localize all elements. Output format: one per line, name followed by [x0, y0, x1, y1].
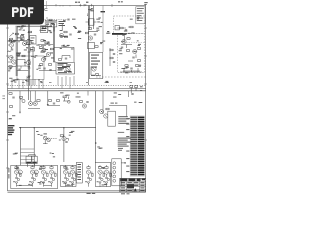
transformer T2 core — [32, 162, 37, 164]
wire — [66, 139, 68, 141]
capacitor C19 — [125, 30, 127, 31]
resistor R48 — [39, 47, 42, 49]
resistor R9 — [41, 51, 44, 53]
wire — [8, 40, 12, 49]
connector pin 4 — [113, 175, 116, 178]
transistor Q12 — [133, 49, 137, 53]
value label — [91, 61, 100, 62]
strip text marks — [77, 164, 81, 180]
resistor R43 — [41, 40, 44, 42]
parts list density overlay — [130, 115, 145, 176]
wire stubs to Q13 Q14 — [31, 91, 36, 102]
resistor R23 — [127, 38, 130, 40]
resistor R3 — [20, 36, 23, 38]
resistor R8 — [22, 55, 25, 57]
rotated note left of output box — [8, 168, 9, 179]
transformer T2 box — [32, 156, 37, 163]
wire vertical net center — [87, 6, 89, 86]
bus tick marks — [28, 33, 31, 76]
wire — [17, 66, 29, 71]
output stage box mid — [61, 165, 77, 186]
component box U2 — [56, 63, 75, 75]
resistor R11 — [58, 59, 61, 61]
resistor R5 — [42, 27, 45, 29]
transistor Q3 — [9, 55, 13, 59]
enclosure outline left block — [17, 56, 44, 80]
resistor R34 — [48, 100, 51, 102]
title block text marks — [121, 182, 145, 191]
capacitor C1 — [11, 49, 13, 50]
wire vertical stub — [92, 6, 94, 30]
junction cross marks — [8, 15, 136, 141]
node junction — [63, 127, 64, 128]
resistor R46 — [120, 27, 123, 29]
node label small — [101, 11, 106, 12]
value label — [44, 133, 47, 134]
capacitor C20 — [43, 68, 45, 69]
note text block rows — [118, 138, 132, 147]
wire stub — [88, 91, 128, 97]
component box U8 on bus — [31, 48, 35, 52]
net label marks — [115, 103, 117, 104]
wire main left vertical bus — [27, 6, 29, 101]
value labels lower-left of top cluster — [47, 18, 55, 25]
transistor cell Q24 — [62, 165, 70, 187]
transistor Q17 — [104, 114, 108, 118]
wire drops from terminal boxes — [48, 27, 54, 32]
wire — [28, 108, 40, 110]
dashed enclosure box A — [114, 16, 145, 34]
transistor Q6 — [46, 52, 50, 56]
lamp M1 — [9, 40, 12, 43]
wire horizontal mid rail — [19, 127, 96, 129]
connector pin 1 — [113, 162, 116, 165]
resistor R33 — [37, 100, 40, 102]
value label — [91, 58, 97, 59]
dashed divider in box B — [122, 41, 145, 43]
terminal box labels — [46, 22, 56, 25]
wire in box A — [117, 27, 130, 28]
capacitor C6 — [67, 19, 69, 20]
dashed net line — [96, 76, 146, 78]
resistor R18 — [85, 32, 88, 34]
wire bus B+ — [8, 88, 146, 90]
transistor cell Q27 — [97, 165, 105, 187]
resistor R22 — [110, 57, 113, 59]
capacitor C17 — [65, 141, 67, 142]
wire horizontal link — [38, 44, 53, 46]
capacitor C15 — [53, 103, 55, 104]
transistor cell Q21 — [29, 165, 37, 187]
wire vertical pair center — [52, 24, 54, 62]
capacitor C5 — [49, 70, 51, 71]
parts list row labels — [126, 118, 130, 172]
transistor cell Q20 — [13, 165, 21, 187]
value label — [58, 65, 64, 66]
resistor R15 — [45, 9, 48, 11]
wire — [8, 58, 12, 63]
separator dash — [118, 131, 125, 133]
sheet note top left — [75, 2, 88, 3]
wire — [14, 37, 27, 41]
capacitor C11 — [132, 57, 134, 58]
extra net labels — [8, 17, 140, 158]
transistor Q10 — [92, 67, 96, 71]
callout note text — [59, 21, 66, 26]
footer text — [87, 193, 130, 194]
transistor cell Q22 — [40, 165, 48, 187]
component box U3 — [89, 19, 94, 25]
wire drop with arrow — [19, 91, 21, 113]
wire — [17, 52, 22, 54]
output stage box right — [96, 162, 111, 186]
connector pin 5 — [113, 179, 116, 182]
wire vertical stub c — [61, 24, 63, 31]
wire — [109, 48, 111, 66]
value label — [59, 11, 62, 12]
resistor R7 — [16, 54, 19, 56]
wire vertical net left — [15, 27, 17, 76]
wire — [91, 67, 101, 76]
scattered value and net labels — [9, 8, 143, 186]
connector J1 box — [112, 159, 121, 186]
transistor pair circle b1 — [18, 170, 22, 174]
resistor R27 — [125, 65, 128, 67]
wire — [48, 105, 60, 107]
resistor R17 — [88, 28, 91, 30]
resistor R32 — [9, 106, 12, 108]
value label — [91, 55, 99, 56]
node junction — [34, 127, 35, 128]
output stage box left — [11, 165, 58, 188]
resistor R10 — [50, 48, 53, 50]
resistor R1 — [9, 38, 12, 40]
resistor R4 — [28, 31, 31, 33]
resistor R2 — [15, 33, 18, 35]
erase patch (scan whitespace) — [48, 6, 88, 18]
resistor R49 — [43, 50, 46, 52]
transistor Q8 — [62, 13, 66, 17]
dark label above K2 — [42, 28, 47, 29]
wire horizontal net — [88, 31, 98, 33]
resistor R50 — [40, 64, 43, 66]
wire — [131, 88, 136, 94]
capacitor C14 — [12, 97, 14, 98]
wire — [43, 136, 50, 144]
resistor R47 — [130, 26, 133, 28]
PDF badge plate — [0, 0, 44, 25]
capacitor C2 — [18, 69, 20, 70]
wire vertical — [102, 91, 104, 114]
value label — [58, 70, 63, 71]
capacitor C13 — [131, 94, 133, 95]
wire bottom cluster links — [17, 185, 73, 187]
terminal box TB1 — [45, 20, 51, 27]
resistor R19 — [95, 46, 98, 48]
wire vertical — [102, 6, 104, 53]
transistor cell Q28 — [103, 165, 111, 187]
transistor cell Q23 — [48, 165, 56, 187]
junction box outline — [108, 111, 116, 126]
sheet box top right — [136, 7, 145, 24]
component cluster under bus b — [63, 96, 70, 103]
component box U5 — [89, 53, 103, 79]
wire — [53, 56, 70, 63]
wire top cluster links — [60, 13, 97, 23]
component box U7 in box A — [115, 26, 119, 30]
wire links in dashed box — [120, 45, 142, 73]
node label bar B (dark) — [112, 33, 127, 35]
node junction — [20, 127, 21, 128]
wire — [121, 42, 140, 72]
resistor R38 — [60, 135, 63, 137]
resistor R36 — [79, 101, 82, 103]
U2 interior rows — [58, 63, 72, 73]
transistor Q5 — [26, 60, 30, 64]
title block grid lines — [120, 178, 146, 192]
dashed link — [51, 138, 57, 140]
diode box D1 — [17, 60, 25, 67]
wire left link — [8, 66, 16, 68]
title block extra dark cell — [127, 184, 134, 188]
capacitor C18 — [69, 34, 71, 35]
PDF badge text — [12, 7, 33, 17]
net label marks — [111, 103, 114, 104]
wire link lower — [39, 70, 56, 72]
relay K2 box — [41, 26, 48, 33]
wire top stubs — [60, 6, 70, 10]
resistor R6 — [9, 66, 12, 68]
wire feed to U2 — [54, 47, 74, 62]
capacitor C9 — [113, 62, 115, 63]
value label — [58, 67, 67, 68]
note small rows — [118, 148, 123, 151]
transistor Q4 — [12, 60, 16, 64]
wire bus B- — [8, 90, 146, 92]
component cluster under bus a — [20, 97, 26, 103]
wire ladder vertical left — [20, 128, 22, 166]
terminal box TB2 — [51, 20, 57, 27]
wire horizontal net top — [16, 25, 53, 27]
wire vertical net — [32, 46, 34, 85]
net label right of bus pair — [140, 86, 143, 91]
transistor Q18 — [62, 137, 66, 141]
resistor R25 — [137, 48, 140, 50]
arrow adjust symbol — [10, 33, 14, 37]
resistor R20 — [95, 74, 98, 76]
wire second vertical bus — [29, 6, 31, 86]
transistor Q29 — [59, 33, 63, 37]
capacitor C8 — [113, 54, 115, 55]
border ruler ticks — [6, 4, 147, 168]
resistor R37 — [106, 108, 109, 110]
transistor Q19 — [41, 57, 45, 61]
wire vertical net left b — [16, 27, 18, 76]
bus top terminal symbols — [79, 4, 93, 7]
dashed callout line — [45, 19, 70, 21]
resistor R13 — [60, 10, 63, 12]
capacitor C10 — [121, 47, 123, 48]
net stub labels above dotted bus — [22, 82, 132, 84]
value label — [31, 37, 35, 40]
cluster mass q — [40, 46, 47, 52]
resistor R45 — [49, 19, 52, 21]
wire bar to cluster — [123, 35, 125, 43]
resistor R44 — [45, 42, 48, 44]
wire meter feed — [8, 40, 17, 42]
transistor Q15 — [82, 104, 86, 108]
component box U4 — [88, 43, 95, 49]
wire Vcc feed — [109, 105, 127, 107]
capacitor C16 — [86, 102, 88, 103]
sheet note top right — [118, 1, 148, 5]
transistor Q1 — [9, 43, 13, 47]
wire — [126, 106, 128, 117]
transformer T1 core — [26, 162, 31, 164]
resistor R41 — [64, 31, 67, 33]
wire drop — [47, 91, 49, 106]
note text rows — [118, 116, 129, 124]
wire drop comb to bus — [12, 76, 74, 89]
vertical text strip box — [76, 163, 82, 184]
wire ladder rungs — [21, 149, 35, 163]
transistor Q2 — [22, 41, 26, 45]
capacitor C7 — [94, 34, 96, 35]
wire — [28, 155, 36, 167]
transistor Q31 — [47, 138, 51, 142]
transformer T1 box — [26, 156, 32, 163]
title block header cells — [120, 179, 145, 181]
wire vertical pair center b — [54, 24, 56, 62]
connector pin 2 — [113, 166, 116, 169]
transistor Q7 — [66, 67, 70, 71]
resistor R26 — [137, 60, 140, 62]
value label — [42, 29, 47, 32]
resistor R16 — [85, 14, 88, 16]
component box U6 top — [58, 10, 63, 14]
transistor Q13 — [28, 101, 32, 105]
transistor Q16 — [99, 109, 103, 113]
resistor R28 — [135, 65, 138, 67]
transistor Q11 — [122, 39, 126, 43]
wire vertical drop center — [95, 91, 97, 163]
node junction — [95, 142, 97, 144]
revision triangle mark — [134, 188, 137, 191]
note text block left margin — [8, 125, 14, 135]
capacitor C4 — [65, 58, 67, 59]
wire vertical net center b — [88, 6, 90, 31]
resistor R31 — [9, 93, 12, 95]
resistor R24 — [126, 50, 129, 52]
capacitor C3 — [44, 58, 46, 59]
wire — [45, 1, 47, 8]
wire vertical drop — [63, 128, 65, 162]
resistor R29 on bus — [130, 86, 133, 88]
cluster marks near Q6 — [44, 49, 54, 58]
transistor Q14 — [33, 101, 37, 105]
resistor R42 — [64, 36, 67, 38]
wire ladder vertical right — [33, 128, 35, 166]
resistor R30 on bus — [135, 86, 138, 88]
transistor pair circle b2 — [34, 170, 38, 174]
transistor cell Q25 — [69, 165, 77, 187]
wire arrow out — [121, 162, 126, 163]
relay K1 box — [30, 36, 37, 45]
value label — [91, 64, 98, 65]
margin text left — [2, 96, 5, 100]
value rows in U2 — [66, 65, 72, 73]
transistor Q30 — [43, 136, 47, 140]
title block frame — [120, 178, 146, 192]
transistor Q9 — [88, 36, 92, 40]
value label — [31, 39, 34, 42]
capacitor C12 — [130, 68, 132, 69]
connector pin 3 — [113, 171, 116, 174]
dashed enclosure box B — [117, 34, 145, 73]
resistor R40 zigzag — [8, 51, 12, 52]
resistor R12 — [48, 64, 51, 66]
parts list table dark rows — [130, 117, 144, 176]
resistor R35 — [56, 100, 59, 102]
sheet number box — [137, 8, 144, 21]
resistor R21 — [110, 49, 113, 51]
dotted bus line — [8, 84, 146, 86]
transistor cell Q26 — [85, 165, 93, 187]
resistor R14 — [69, 12, 72, 14]
value rows in U5 — [91, 67, 97, 76]
